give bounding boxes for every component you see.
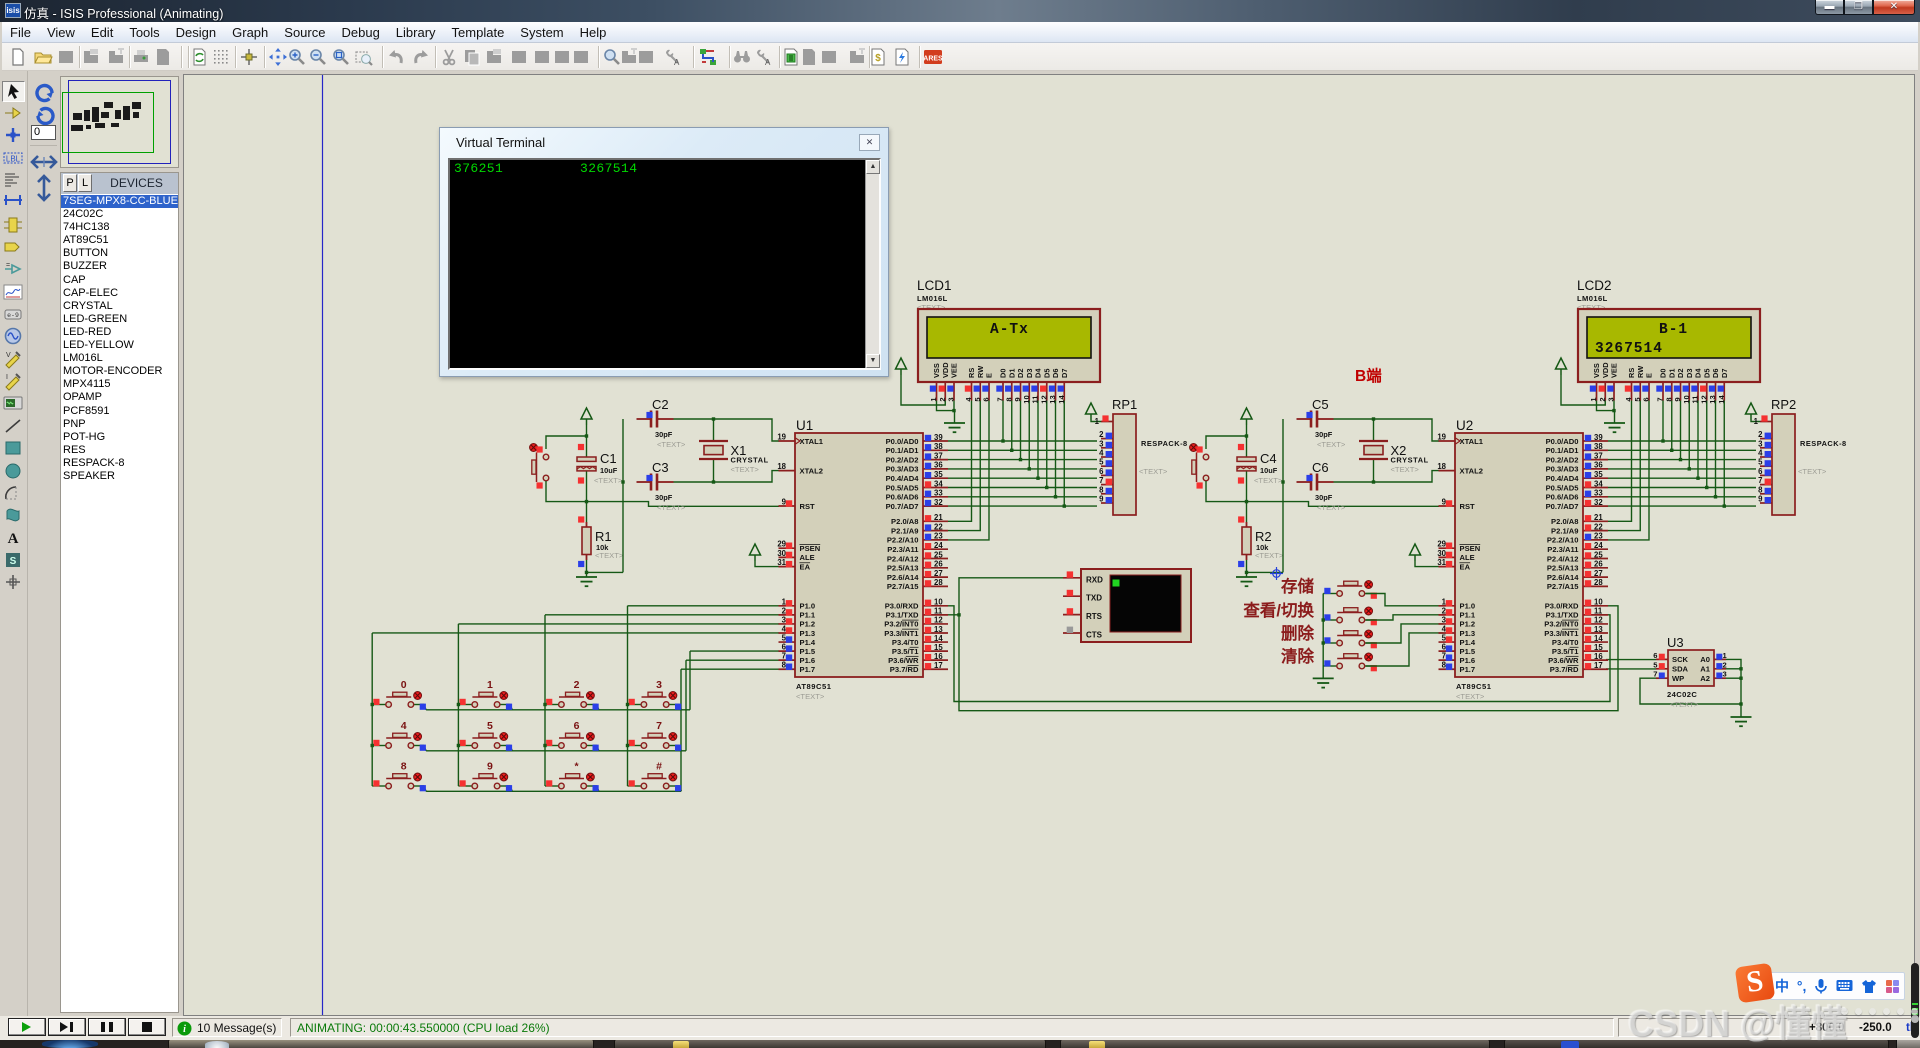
wire LCD1 D1 down to bus	[1011, 401, 1013, 451]
wire LCD2 D7 down to bus	[1723, 401, 1725, 507]
svg-text:P1.6: P1.6	[1460, 656, 1476, 665]
Virtual Terminal popup window	[439, 127, 889, 377]
svg-text:34: 34	[1594, 479, 1603, 488]
wire U1 P0.5 to RP1	[948, 487, 1097, 489]
U1 pin 12 (P3.2/INT0)	[884, 616, 948, 629]
ground (LCD2)	[1604, 423, 1625, 432]
U3 pin 1 (A0)	[1700, 651, 1727, 664]
U2 pin 11 (P3.1/TXD)	[1546, 607, 1608, 620]
ground (U3)	[1731, 717, 1752, 726]
AT89C51 microcontroller U2	[1455, 418, 1583, 701]
ground (B oscillator)	[1236, 577, 1257, 586]
button keypad "0"	[372, 679, 426, 710]
U1 pin 32 (P0.7/AD7)	[886, 498, 948, 511]
svg-text:38: 38	[1594, 442, 1603, 451]
svg-text:38: 38	[934, 442, 943, 451]
wire U2 WR to U3 SCK	[1606, 659, 1656, 661]
svg-text:C6: C6	[1312, 460, 1329, 475]
svg-text:6: 6	[982, 397, 991, 401]
svg-text:RST: RST	[800, 502, 816, 511]
ground (LCD1)	[944, 423, 965, 432]
svg-text:D1: D1	[1667, 369, 1676, 378]
svg-text:I: I	[6, 374, 8, 381]
U1 pin 35 (P0.4/AD4)	[886, 470, 948, 483]
svg-text:B-1: B-1	[1659, 322, 1688, 338]
wire LCD2 VEE stub	[1613, 401, 1615, 411]
wire U2 RD to U3 SDA	[1606, 668, 1656, 670]
wire C5/C6 ground-side vertical	[1282, 419, 1284, 572]
U2 pin 36 (P0.3/AD3)	[1546, 461, 1608, 474]
svg-text:i: i	[183, 1024, 186, 1035]
svg-text:2: 2	[1723, 660, 1727, 669]
svg-text:24: 24	[1594, 541, 1603, 550]
svg-text:E: E	[985, 373, 994, 378]
wire reset to RST U2	[1206, 481, 1439, 506]
LCD1 pin 6 (E)	[982, 373, 994, 402]
wire button to U2 P1.0	[1366, 594, 1443, 606]
svg-text:P3.2/INT0: P3.2/INT0	[884, 620, 918, 629]
svg-text:12: 12	[1594, 616, 1603, 625]
svg-text:P3.4/T0: P3.4/T0	[1552, 638, 1579, 647]
svg-text:35: 35	[934, 470, 943, 479]
svg-text:SCK: SCK	[1672, 655, 1689, 664]
wire U2 P0.6 to RP2	[1608, 496, 1756, 498]
svg-text:<TEXT>: <TEXT>	[1456, 692, 1485, 701]
svg-text:37: 37	[934, 451, 943, 460]
LCD2 pin 4 (RS)	[1624, 368, 1636, 402]
svg-text:11: 11	[934, 607, 943, 616]
LCD1 pin 8 (D1)	[1004, 369, 1016, 402]
svg-text:RTS: RTS	[1086, 612, 1103, 621]
svg-text:<TEXT>: <TEXT>	[731, 465, 760, 474]
svg-text:P1.1: P1.1	[800, 611, 816, 620]
svg-text:8: 8	[401, 761, 407, 773]
svg-text:14: 14	[934, 634, 943, 643]
svg-text:D0: D0	[1659, 369, 1668, 378]
svg-text:13: 13	[1594, 625, 1603, 634]
svg-text:8: 8	[1758, 485, 1763, 494]
svg-text:25: 25	[934, 550, 943, 559]
svg-text:34: 34	[934, 479, 943, 488]
svg-text:11: 11	[1594, 607, 1603, 616]
RP2 pin 6	[1758, 467, 1772, 476]
svg-text:P1.6: P1.6	[800, 656, 816, 665]
svg-text:C2: C2	[652, 397, 669, 412]
U2 pin 22 (P2.1/A9)	[1551, 522, 1608, 535]
svg-text:P2.1/A9: P2.1/A9	[1551, 526, 1578, 535]
U2 pin 19 (XTAL1)	[1437, 433, 1483, 446]
svg-text:31: 31	[777, 558, 786, 567]
LCD2 pin 9 (D2)	[1673, 369, 1685, 402]
svg-text:16: 16	[1594, 652, 1603, 661]
svg-text:LCD2: LCD2	[1577, 278, 1612, 293]
svg-text:XTAL1: XTAL1	[800, 437, 824, 446]
wire C5 to XTAL1 U2	[1334, 419, 1440, 441]
svg-text:6: 6	[1653, 651, 1657, 660]
RP2 pin 3	[1758, 439, 1772, 448]
wire LCD1 D5 down to bus	[1046, 401, 1048, 488]
U1 pin 19 (XTAL1)	[777, 433, 823, 446]
wire U1 P0.7 to RP1	[948, 505, 1097, 507]
U1 pin 24 (P2.3/A11)	[887, 541, 948, 554]
button keypad "4"	[372, 720, 426, 751]
svg-text:3267514: 3267514	[1595, 341, 1663, 357]
svg-text:E: E	[1645, 373, 1654, 378]
svg-text:<TEXT>: <TEXT>	[657, 503, 686, 512]
svg-text:VEE: VEE	[950, 363, 959, 378]
terminal pin CTS	[1063, 627, 1103, 640]
svg-text:RP1: RP1	[1112, 397, 1137, 412]
svg-text:P0.5/AD5: P0.5/AD5	[886, 483, 920, 492]
U1 pin 27 (P2.6/A14)	[887, 569, 948, 582]
button view/switch	[1323, 607, 1377, 625]
svg-text:A-Tx: A-Tx	[990, 322, 1029, 338]
wire LCD2 D0 down to bus	[1662, 401, 1664, 442]
svg-text:P2.3/A11: P2.3/A11	[887, 545, 919, 554]
svg-text:WP: WP	[1672, 674, 1684, 683]
svg-text:P3.2/INT0: P3.2/INT0	[1544, 620, 1578, 629]
svg-text:<TEXT>: <TEXT>	[1255, 551, 1284, 560]
U1 pin 3 (P1.2)	[779, 615, 816, 628]
RP1 pin 4	[1099, 449, 1113, 458]
svg-text:C1: C1	[600, 451, 617, 466]
svg-text:1: 1	[1723, 651, 1728, 660]
U1 pin 28 (P2.7/A15)	[887, 578, 948, 591]
LCD2 pin 14 (D7)	[1717, 369, 1729, 404]
svg-text:15: 15	[1594, 643, 1603, 652]
wire keypad col1 vertical	[371, 633, 373, 786]
svg-text:AT89C51: AT89C51	[796, 682, 832, 691]
svg-text:P0.7/AD7: P0.7/AD7	[886, 502, 919, 511]
svg-text:PSEN: PSEN	[800, 544, 821, 553]
wire LCD2 RS to U2 P2.0	[1608, 401, 1632, 522]
svg-text:VDD: VDD	[941, 362, 950, 378]
capacitor C3 30pF	[637, 474, 674, 491]
U2 pin 3 (P1.2)	[1439, 615, 1476, 628]
svg-text:ARES: ARES	[923, 56, 943, 63]
wire U3 A0 to ground net	[1726, 659, 1741, 717]
wire LCD1 VSS/VEE to ground	[937, 401, 955, 424]
svg-text:11: 11	[1691, 395, 1700, 404]
U2 pin 26 (P2.5/A13)	[1547, 560, 1608, 573]
U1 pin 25 (P2.4/A12)	[887, 550, 948, 563]
svg-text:18: 18	[777, 462, 786, 471]
svg-text:P1.5: P1.5	[1460, 647, 1476, 656]
wire U1 TXD to terminal RXD	[948, 578, 1063, 615]
wire LCD1 VEE stub	[953, 401, 955, 411]
wire U2 P0.2 to RP2	[1608, 459, 1756, 461]
svg-text:P2.6/A14: P2.6/A14	[887, 573, 919, 582]
wire LCD2 D5 down to bus	[1706, 401, 1708, 488]
wire keypad row1 vertical	[689, 651, 691, 710]
wire VCC to reset button A	[546, 436, 587, 449]
svg-text:C3: C3	[652, 460, 669, 475]
svg-text:ALE: ALE	[800, 553, 815, 562]
LCD2 pin 11 (D4)	[1691, 368, 1703, 404]
svg-text:4: 4	[1758, 449, 1763, 458]
svg-text:P3.6/WR: P3.6/WR	[1548, 656, 1579, 665]
svg-text:30pF: 30pF	[655, 430, 673, 439]
svg-text:P2.5/A13: P2.5/A13	[887, 564, 919, 573]
svg-text:27: 27	[1594, 569, 1603, 578]
U3 pin 3 (A2)	[1700, 670, 1726, 683]
wire U2 P0.0 to RP2	[1608, 440, 1756, 442]
wire LCD1 D6 down to bus	[1055, 401, 1057, 497]
svg-text:<TEXT>: <TEXT>	[1798, 467, 1827, 476]
svg-text:22: 22	[1594, 522, 1603, 531]
svg-text:RXD: RXD	[1086, 575, 1103, 584]
LCD LCD1 (LM016L)	[917, 278, 1100, 382]
EEPROM U3 24C02C	[1667, 635, 1714, 709]
svg-text:19: 19	[1437, 433, 1446, 442]
U1 pin 39 (P0.0/AD0)	[886, 433, 948, 446]
svg-text:25: 25	[1594, 550, 1603, 559]
svg-text:RESPACK-8: RESPACK-8	[1141, 439, 1188, 448]
wire cap ground bus to R1 node	[587, 571, 624, 573]
crystal X2	[1359, 441, 1388, 459]
svg-text:2: 2	[938, 397, 947, 401]
svg-text:30pF: 30pF	[655, 493, 673, 502]
svg-text:P3.1/TXD: P3.1/TXD	[1546, 611, 1579, 620]
svg-text:ALE: ALE	[1460, 553, 1475, 562]
U1 pin 14 (P3.4/T0)	[892, 634, 948, 647]
svg-text:33: 33	[934, 489, 943, 498]
svg-text:4: 4	[1099, 449, 1104, 458]
svg-text:RW: RW	[976, 366, 985, 378]
svg-text:P1.0: P1.0	[1460, 602, 1476, 611]
svg-text:26: 26	[934, 560, 943, 569]
ground (A oscillator)	[576, 577, 597, 586]
LCD2 pin 10 (D3)	[1682, 369, 1694, 404]
svg-text:6: 6	[1758, 467, 1763, 476]
svg-text:P2.1/A9: P2.1/A9	[891, 526, 918, 535]
svg-text:P0.2/AD2: P0.2/AD2	[1546, 455, 1579, 464]
svg-text:P2.5/A13: P2.5/A13	[1547, 564, 1579, 573]
wire keypad row3 bus	[426, 790, 681, 792]
svg-text:9: 9	[1673, 397, 1682, 401]
svg-text:R2: R2	[1255, 529, 1272, 544]
U1 pin 5 (P1.4)	[779, 634, 816, 647]
wire LCD2 RW to U2 P2.1	[1608, 401, 1640, 531]
wire cap ground bus to R2 node	[1247, 571, 1284, 573]
button keypad "1"	[458, 679, 512, 710]
svg-text:3: 3	[1099, 439, 1104, 448]
svg-text:19: 19	[777, 433, 786, 442]
wire U1 TXD to U2 RXD	[959, 606, 1618, 711]
U1 pin 26 (P2.5/A13)	[887, 560, 948, 573]
svg-text:3: 3	[1723, 670, 1727, 679]
svg-text:XTAL1: XTAL1	[1460, 437, 1484, 446]
svg-text:<TEXT>: <TEXT>	[1670, 700, 1699, 709]
svg-text:28: 28	[1594, 578, 1603, 587]
svg-text:P1.7: P1.7	[1460, 665, 1476, 674]
wire U2 P0.3 to RP2	[1608, 468, 1756, 470]
wire U1 P0.6 to RP1	[948, 496, 1097, 498]
wire keypad row2 vertical	[685, 660, 687, 751]
svg-text:P3.6/WR: P3.6/WR	[888, 656, 919, 665]
button keypad "3"	[628, 679, 682, 710]
svg-text:P3.0/RXD: P3.0/RXD	[1545, 602, 1579, 611]
wire C2 to XTAL1	[674, 419, 780, 441]
U2 pin 1 (P1.0)	[1439, 597, 1476, 610]
U2 pin 8 (P1.7)	[1439, 661, 1476, 674]
svg-text:26: 26	[1594, 560, 1603, 569]
wire R1 to ground	[586, 560, 588, 577]
svg-text:28: 28	[934, 578, 943, 587]
svg-text:12: 12	[1039, 395, 1048, 403]
LCD1 pin 10 (D3)	[1022, 369, 1034, 404]
svg-text:P1.3: P1.3	[800, 629, 816, 638]
svg-text:EA: EA	[800, 562, 811, 571]
svg-text:35: 35	[1594, 470, 1603, 479]
wire LCD1 D0 down to bus	[1002, 401, 1004, 442]
RP1 RESPACK-8	[1112, 397, 1188, 515]
svg-text:29: 29	[777, 540, 786, 549]
svg-text:XTAL2: XTAL2	[800, 466, 824, 475]
crystal X1	[699, 441, 728, 459]
svg-text:P1.3: P1.3	[1460, 629, 1476, 638]
U2 pin 21 (P2.0/A8)	[1551, 513, 1608, 526]
U2 pin 12 (P3.2/INT0)	[1544, 616, 1608, 629]
resistor R1 10k	[578, 516, 591, 567]
svg-text:D1: D1	[1007, 369, 1016, 378]
wire VCC to reset button B	[1206, 436, 1247, 449]
svg-text:VDD: VDD	[1601, 362, 1610, 378]
svg-text:6: 6	[1099, 467, 1104, 476]
button RESET-A	[530, 444, 549, 489]
svg-text:P2.0/A8: P2.0/A8	[891, 517, 918, 526]
RP1 pin 6	[1099, 467, 1113, 476]
wire VCC to C1	[586, 425, 588, 457]
U2 pin 28 (P2.7/A15)	[1547, 578, 1608, 591]
svg-text:=: =	[6, 262, 10, 269]
LCD2 pin 5 (RW)	[1633, 366, 1645, 402]
svg-text:7: 7	[1099, 476, 1103, 485]
wire keypad row3 vertical	[680, 669, 682, 791]
svg-text:RS: RS	[967, 368, 976, 378]
origin marker	[1270, 567, 1283, 580]
button keypad "2"	[545, 679, 599, 710]
svg-text:e-9: e-9	[7, 312, 19, 319]
svg-text:删除: 删除	[1281, 623, 1315, 643]
wire keypad row1 bus	[426, 709, 690, 711]
RP2 RESPACK-8	[1771, 397, 1847, 515]
svg-text:10: 10	[1594, 598, 1603, 607]
svg-text:查看/切换: 查看/切换	[1242, 600, 1314, 620]
wire LCD1 D3 down to bus	[1028, 401, 1030, 469]
U2 pin 23 (P2.2/A10)	[1547, 532, 1608, 545]
U2 pin 5 (P1.4)	[1439, 634, 1476, 647]
wire VCC to EA U1	[755, 561, 779, 567]
svg-text:8: 8	[1664, 397, 1673, 401]
button keypad "*"	[545, 761, 599, 792]
LCD1 pin 13 (D6)	[1048, 369, 1060, 404]
RP1 pin 8	[1099, 485, 1113, 494]
wire P1.0 to keypad col4	[628, 605, 780, 607]
U1 pin 18 (XTAL2)	[777, 462, 823, 475]
U3 pin 5 (SDA)	[1653, 660, 1688, 673]
svg-text:32: 32	[1594, 498, 1603, 507]
svg-text:A1: A1	[1700, 665, 1710, 674]
svg-text:6: 6	[574, 720, 580, 732]
RP1 pin 9	[1099, 495, 1113, 504]
svg-text:PSEN: PSEN	[1460, 544, 1481, 553]
wire P1.5 to keypad row1	[690, 650, 779, 652]
svg-text:30: 30	[1437, 549, 1446, 558]
wire U1 P0.0 to RP1	[948, 440, 1097, 442]
power VCC (LCD1 VDD)	[896, 358, 907, 375]
U2 pin 31 (EA)	[1437, 558, 1470, 571]
U2 pin 27 (P2.6/A14)	[1547, 569, 1608, 582]
svg-text:14: 14	[1057, 395, 1066, 404]
U1 pin 7 (P1.6)	[779, 652, 816, 665]
U3 pin 7 (WP)	[1653, 670, 1684, 683]
LCD1 pin 4 (RS)	[964, 368, 976, 402]
svg-text:LM016L: LM016L	[1577, 294, 1608, 303]
LCD1 pin 5 (RW)	[973, 366, 985, 402]
svg-text:7: 7	[782, 652, 786, 661]
wire U2 P0.1 to RP2	[1608, 449, 1756, 451]
svg-text:CRYSTAL: CRYSTAL	[731, 456, 769, 465]
svg-text:P3.7/RD: P3.7/RD	[1550, 665, 1579, 674]
wire C3 to XTAL2	[674, 471, 780, 482]
svg-text:D4: D4	[1034, 368, 1043, 378]
U2 pin 33 (P0.6/AD6)	[1546, 489, 1608, 502]
wire reset to RST U1	[546, 481, 779, 506]
svg-text:22: 22	[934, 522, 943, 531]
U1 pin 13 (P3.3/INT1)	[884, 625, 948, 638]
svg-text:P3.5/T1: P3.5/T1	[1552, 647, 1579, 656]
svg-text:P0.0/AD0: P0.0/AD0	[886, 437, 919, 446]
svg-text:11: 11	[1031, 395, 1040, 404]
U1 pin 38 (P0.1/AD1)	[886, 442, 948, 455]
wire VCC to C4	[1246, 425, 1248, 457]
svg-text:14: 14	[1717, 395, 1726, 404]
svg-text:D5: D5	[1042, 369, 1051, 378]
svg-text:P2.4/A12: P2.4/A12	[887, 554, 919, 563]
svg-text:P0.4/AD4: P0.4/AD4	[886, 474, 920, 483]
svg-text:21: 21	[1594, 513, 1603, 522]
U1 pin 2 (P1.1)	[779, 606, 816, 619]
svg-text:<TEXT>: <TEXT>	[1317, 503, 1346, 512]
U1 pin 23 (P2.2/A10)	[887, 532, 948, 545]
svg-text:P1.2: P1.2	[1460, 620, 1476, 629]
svg-text:S: S	[10, 556, 17, 567]
svg-text:P3.1/TXD: P3.1/TXD	[886, 611, 919, 620]
LCD1 pin 7 (D0)	[996, 369, 1008, 402]
svg-text:5: 5	[1758, 458, 1763, 467]
virtual terminal instrument (RXD/TXD/RTS/CTS)	[1081, 569, 1191, 642]
U2 pin 7 (P1.6)	[1439, 652, 1476, 665]
capacitor C2 30pF	[637, 411, 674, 428]
svg-text:39: 39	[1594, 433, 1603, 442]
U2 pin 38 (P0.1/AD1)	[1546, 442, 1608, 455]
svg-text:P1.7: P1.7	[800, 665, 816, 674]
LCD1 pin 12 (D5)	[1039, 369, 1051, 404]
U1 pin 22 (P2.1/A9)	[891, 522, 948, 535]
RP2 pin 5	[1758, 458, 1772, 467]
svg-text:2: 2	[1099, 430, 1104, 439]
svg-text:SDA: SDA	[1672, 665, 1689, 674]
svg-text:P2.0/A8: P2.0/A8	[1551, 517, 1578, 526]
wire X2 top	[1373, 419, 1375, 441]
svg-text:D5: D5	[1702, 369, 1711, 378]
svg-text:P2.2/A10: P2.2/A10	[1547, 536, 1579, 545]
svg-text:5: 5	[1099, 458, 1104, 467]
U2 pin 15 (P3.5/T1)	[1552, 643, 1608, 656]
svg-text:C4: C4	[1260, 451, 1277, 466]
wire LCD2 D6 down to bus	[1715, 401, 1717, 497]
